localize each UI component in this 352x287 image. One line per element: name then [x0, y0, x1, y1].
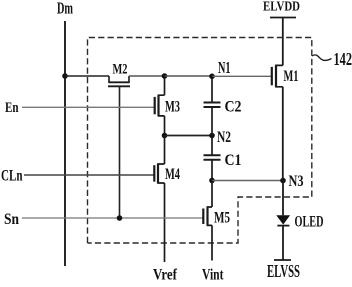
- svg-text:M3: M3: [165, 99, 180, 116]
- ELVDD supply terminal bar: [270, 17, 296, 19]
- dashed pixel-circuit boundary box: [88, 38, 312, 244]
- capacitor C2: [204, 76, 221, 135]
- wire OLED cathode to ELVSS: [282, 226, 284, 260]
- node junction M3 drain on N1 wire: [162, 73, 168, 79]
- svg-text:N1: N1: [218, 58, 231, 77]
- node N3 junction dot: [280, 178, 286, 184]
- wire M2 gate down to Sn: [119, 86, 121, 218]
- svg-text:142: 142: [334, 49, 352, 69]
- svg-text:OLED: OLED: [295, 213, 324, 230]
- svg-text:En: En: [5, 100, 19, 116]
- wire Dm data line vertical: [64, 21, 66, 266]
- node junction Sn / M2 gate: [117, 215, 123, 221]
- capacitor C1: [204, 136, 221, 181]
- node junction M3 source / M4 drain / N2 wire: [162, 133, 168, 139]
- svg-text:C2: C2: [225, 98, 242, 115]
- node N2 junction dot: [209, 133, 215, 139]
- wire M1 source to N3: [282, 87, 284, 181]
- svg-text:ELVSS: ELVSS: [267, 261, 300, 281]
- wire Sn scan line to M5 gate: [22, 217, 203, 219]
- svg-text:Vint: Vint: [202, 267, 224, 283]
- node junction Dm / M2 source: [62, 73, 68, 79]
- transistor M4: [154, 136, 164, 263]
- svg-text:Sn: Sn: [4, 211, 19, 228]
- svg-text:M5: M5: [214, 210, 230, 227]
- node junction C1 bottom / M5 drain: [209, 178, 215, 184]
- wire junction to node N1: [165, 75, 213, 77]
- ELVSS supply terminal bar: [274, 259, 291, 261]
- svg-text:N3: N3: [289, 173, 304, 190]
- wire M2 drain to M3 drain junction: [129, 75, 165, 77]
- wire ELVDD to M1 drain: [282, 18, 284, 66]
- svg-text:C1: C1: [225, 152, 242, 169]
- svg-text:N2: N2: [217, 129, 231, 146]
- transistor M5: [203, 181, 212, 261]
- wire Dm junction to M2 source: [65, 75, 109, 77]
- wire CLn control line to M4 gate: [24, 174, 154, 176]
- transistor M2 (horizontal): [108, 76, 130, 86]
- svg-text:Dm: Dm: [57, 0, 73, 18]
- svg-text:M2: M2: [113, 61, 128, 77]
- transistor M3: [155, 76, 165, 136]
- diode OLED: [276, 215, 290, 225]
- wire junction to node N3: [212, 180, 283, 182]
- svg-text:M1: M1: [284, 68, 299, 85]
- wire En scan line to M3 gate: [22, 106, 155, 108]
- transistor M1: [272, 65, 283, 86]
- svg-text:CLn: CLn: [1, 168, 23, 185]
- svg-text:ELVDD: ELVDD: [263, 0, 300, 15]
- wire N1 to M1 gate: [212, 75, 272, 77]
- wire N3 to OLED anode: [282, 181, 284, 216]
- svg-text:Vref: Vref: [153, 267, 178, 283]
- svg-text:M4: M4: [165, 166, 180, 183]
- node N1 junction dot: [209, 74, 215, 80]
- wire junction to node N2: [165, 135, 213, 137]
- reference squiggle to 142: [312, 55, 332, 61]
